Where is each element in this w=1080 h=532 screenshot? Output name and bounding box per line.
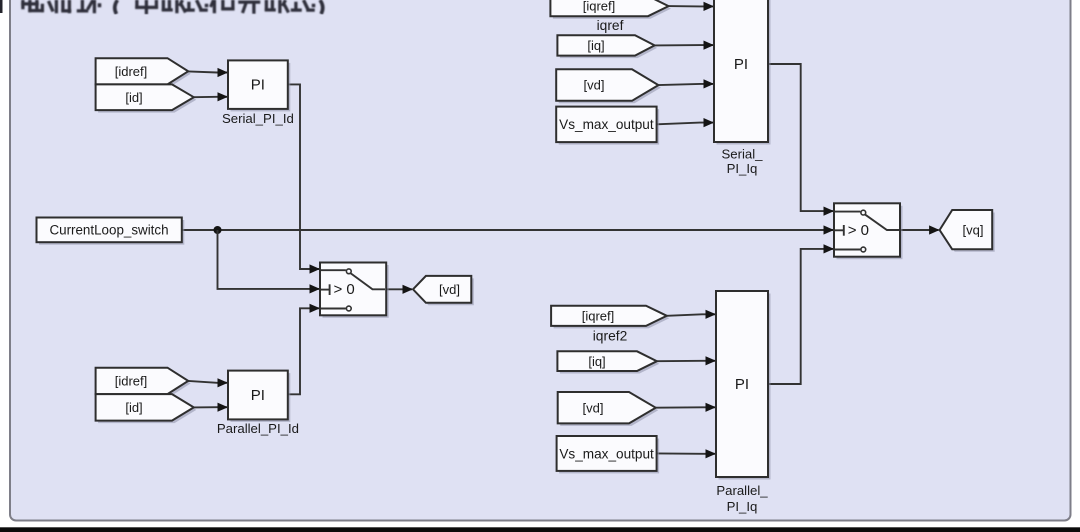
from tag [idref] (lower left) [96,368,191,397]
svg-text:PI: PI [734,56,748,73]
wire [iqref] to Parallel_PI_Iq port 1 [667,314,715,316]
wire [vd] to Parallel_PI_Iq port 3 [656,406,715,408]
switch SW_vq [834,203,903,259]
from tag [iq] (lower right) [557,351,659,373]
wire [id] to Serial_PI_Id port 2 [194,96,227,98]
svg-text:> 0: > 0 [848,222,869,239]
switch SW_vd [320,263,389,318]
svg-text:[idref]: [idref] [115,374,148,389]
arrowhead into vq switch middle input [824,225,835,234]
wire Parallel_PI_Id output to vd switch bottom input [288,308,319,394]
subsystem Serial_PI_Iq [714,0,771,145]
svg-text:[id]: [id] [125,400,142,415]
svg-text:PI: PI [251,77,265,94]
svg-text:[iq]: [iq] [587,38,604,53]
svg-text:[iqref]: [iqref] [582,308,615,323]
svg-text:[vd]: [vd] [583,400,604,415]
wire [iq] to Serial_PI_Iq port 2 [655,44,713,46]
subsystem Parallel_PI_Id [228,371,290,422]
subsystem Serial_PI_Id [228,60,290,111]
block CurrentLoop_switch [37,218,185,245]
svg-text:[vd]: [vd] [584,78,605,93]
svg-text:PI_Iq: PI_Iq [727,161,758,176]
svg-text:Parallel_: Parallel_ [716,483,768,498]
wire branch down to vd switch middle input [218,230,320,289]
svg-text:iqref: iqref [597,18,624,33]
wire [iqref] to Serial_PI_Iq port 1 [669,5,714,7]
svg-text:[vq]: [vq] [963,223,984,238]
svg-text:> 0: > 0 [334,281,355,298]
block Vs_max_output (upper right) [556,107,659,145]
wire CurrentLoop_switch output (long horizontal to vq switch) [182,229,833,231]
goto tag [vd] [413,276,474,305]
goto tag [vq] [940,210,995,252]
title 电流环（串联式和并联式） (clipped Chinese title fragments) [22,0,323,14]
junction dot [214,226,222,234]
wire [vd] to Serial_PI_Iq port 3 [658,84,713,85]
from tag [vd] (lower right) [558,392,659,426]
wire [idref] to Parallel_PI_Id port 1 [188,381,227,383]
from tag [vd] (upper right) [556,69,661,103]
svg-text:iqref2: iqref2 [593,328,628,343]
wire vd switch output to goto [vd] [386,288,412,290]
svg-text:[iq]: [iq] [588,354,605,369]
wire Serial_PI_Iq output to vq switch top input [768,64,833,211]
wire Vs_max_output to Parallel_PI_Iq port 4 [657,452,715,454]
wire Vs_max_output to Serial_PI_Iq port 4 [657,123,713,125]
svg-text:Serial_PI_Id: Serial_PI_Id [222,111,294,126]
from tag [idref] (upper left) [96,58,191,87]
from tag [iq] (upper right) [557,35,657,58]
label Serial_ PI_Iq [721,147,763,177]
wire [iq] to Parallel_PI_Iq port 2 [657,360,715,362]
from tag [iqref] (upper right) [550,0,671,19]
svg-text:Serial_: Serial_ [721,147,763,162]
wire Serial_PI_Id output to vd switch top input [288,84,319,269]
svg-text:[iqref]: [iqref] [583,0,616,14]
svg-text:[idref]: [idref] [115,64,148,79]
wire [idref] to Serial_PI_Id port 1 [188,71,227,72]
svg-text:[vd]: [vd] [439,282,460,297]
label Parallel_ PI_Iq [716,483,768,514]
svg-text:CurrentLoop_switch: CurrentLoop_switch [49,223,168,238]
block Vs_max_output (lower right) [557,436,660,473]
top-left edge mark [0,0,3,13]
wire Parallel_PI_Iq output to vq switch bottom input [768,249,833,384]
from tag [id] (upper left) [96,84,197,112]
svg-text:Parallel_PI_Id: Parallel_PI_Id [217,421,299,436]
wire vq switch output to goto [vq] [900,229,939,231]
svg-text:PI: PI [735,376,749,393]
wire [id] to Parallel_PI_Id port 2 [194,406,227,408]
from tag [id] (lower left) [96,394,197,423]
svg-text:PI_Iq: PI_Iq [727,499,758,514]
bottom black bar [0,527,1080,532]
svg-text:PI: PI [251,387,265,404]
from tag [iqref] (lower right) [551,306,669,329]
subsystem Parallel_PI_Iq [716,291,771,480]
svg-text:[id]: [id] [125,90,142,105]
svg-text:Vs_max_output: Vs_max_output [559,446,654,461]
svg-text:Vs_max_output: Vs_max_output [559,117,654,132]
